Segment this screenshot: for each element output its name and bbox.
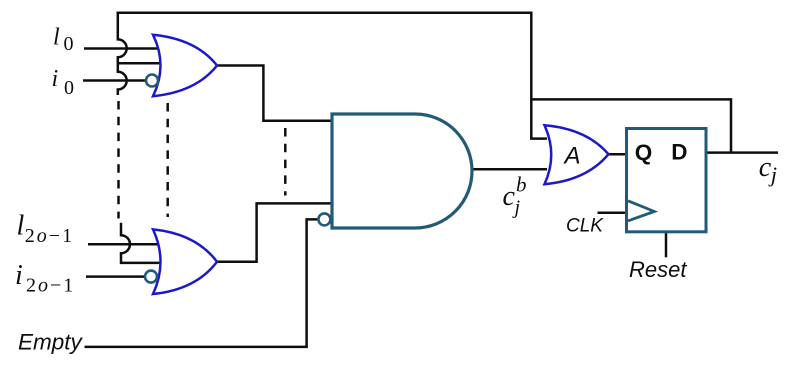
svg-text:Q: Q <box>635 140 653 165</box>
clock triangle <box>628 201 654 221</box>
wire top OR output to AND top input <box>216 66 333 121</box>
wire CLK input <box>598 211 628 214</box>
wire OR A output to flip-flop <box>608 153 628 156</box>
wire i2o-1 input <box>86 275 144 278</box>
wire dashed repetition middle <box>166 103 169 217</box>
wire dashed repetition at AND <box>284 128 287 196</box>
wire Empty input <box>85 219 320 347</box>
wire dashed repetition left <box>117 101 120 219</box>
or-gate A <box>545 125 609 184</box>
svg-text:CLK: CLK <box>566 215 604 236</box>
flip-flop box U1 <box>627 129 707 232</box>
and-gate <box>332 114 472 228</box>
svg-text:i: i <box>15 260 23 291</box>
or-gate G2 bottom <box>153 229 217 294</box>
svg-text:2o−1: 2o−1 <box>26 274 75 296</box>
wire l0 input <box>84 47 162 50</box>
or-gate G1 top <box>153 35 217 96</box>
svg-text:l: l <box>53 25 60 51</box>
wire Reset input <box>665 231 668 258</box>
bubble on i0 input <box>146 75 158 87</box>
svg-text:A: A <box>563 143 581 170</box>
svg-text:Reset: Reset <box>629 257 687 282</box>
wire flip-flop output cj <box>706 151 778 154</box>
wire l2o-1 input <box>88 243 160 246</box>
wire i0 input <box>83 79 147 82</box>
wire bottom middle input with hop <box>121 223 162 263</box>
svg-text:0: 0 <box>64 77 74 99</box>
svg-text:Empty: Empty <box>18 330 84 355</box>
bubble on Empty input of AND <box>318 213 330 225</box>
svg-text:i: i <box>52 66 59 92</box>
svg-text:0: 0 <box>64 33 74 55</box>
wire middle input of top OR gate <box>118 62 163 65</box>
bubble on i2o-1 input <box>145 271 157 283</box>
wire left feedback vertical with hops <box>118 12 127 96</box>
wire bottom OR output to AND lower input <box>216 203 333 261</box>
wire AND output cjb <box>472 168 547 171</box>
wire right feedback vertical into OR A <box>531 12 547 139</box>
wire cj feedback to OR A <box>531 99 731 152</box>
svg-text:D: D <box>671 140 687 165</box>
svg-text:2o−1: 2o−1 <box>25 225 74 247</box>
wire top feedback horizontal <box>117 11 532 14</box>
svg-text:l: l <box>17 210 25 241</box>
svg-text:b: b <box>516 173 527 197</box>
